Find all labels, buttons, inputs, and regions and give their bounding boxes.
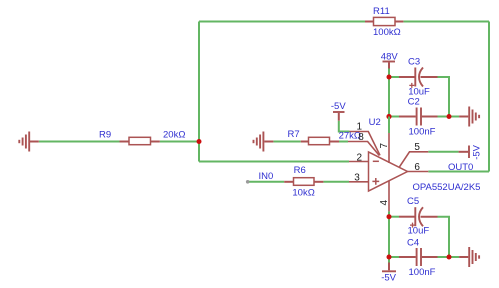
wire R7 left — [273, 141, 300, 143]
svg-text:-5V: -5V — [381, 273, 396, 284]
resistor R6 — [284, 178, 323, 186]
node junction R9 — [197, 139, 202, 144]
wire OUT0 row — [428, 171, 489, 173]
pin 2 lead — [349, 161, 369, 163]
svg-text:OUT0: OUT0 — [448, 162, 473, 173]
wire node to C3 — [389, 76, 399, 78]
svg-text:C3: C3 — [408, 57, 420, 68]
pin 5 lead — [400, 152, 429, 167]
resistor R11 — [365, 17, 403, 25]
capacitor C3 — [399, 68, 438, 88]
svg-text:5: 5 — [414, 142, 420, 153]
node junction 48V — [387, 75, 392, 80]
svg-text:100nF: 100nF — [409, 267, 436, 278]
svg-text:U2: U2 — [369, 117, 381, 128]
op-amp U2 — [348, 132, 428, 212]
svg-text:10uF: 10uF — [408, 226, 430, 237]
pin 6 lead — [408, 171, 429, 173]
wire C4 node to ground — [449, 256, 459, 258]
capacitor C4 — [399, 248, 438, 266]
wire feedback top — [199, 21, 365, 23]
wire 48V stem — [388, 69, 390, 78]
svg-text:C5: C5 — [407, 196, 419, 207]
wire -5V bottom stem green — [388, 257, 390, 263]
ground left — [19, 132, 39, 152]
node junction C4 left — [387, 255, 392, 260]
node junction C5 — [387, 214, 392, 219]
wire R9 right — [160, 141, 199, 143]
node junction C2 — [447, 114, 452, 119]
pin 1 lead — [350, 132, 381, 156]
wire C3 right — [438, 77, 450, 117]
wire IN0 to R6 — [248, 181, 284, 183]
power flag -5V upper — [333, 112, 345, 121]
svg-text:2: 2 — [357, 153, 363, 164]
svg-text:100kΩ: 100kΩ — [373, 27, 401, 38]
ground R7 — [254, 132, 274, 152]
plus sign — [372, 178, 379, 185]
power flag 48V — [383, 62, 396, 69]
wire R9 left — [39, 141, 120, 143]
svg-text:1: 1 — [357, 122, 363, 133]
svg-text:R11: R11 — [373, 6, 390, 17]
svg-text:R7: R7 — [288, 129, 300, 140]
svg-text:6: 6 — [414, 162, 420, 173]
capacitor C2 — [399, 108, 438, 126]
wire node to C5 — [389, 216, 399, 218]
wire node to C2 — [389, 116, 399, 118]
wire pin2 row — [199, 161, 349, 163]
capacitor C5 — [399, 207, 438, 227]
svg-text:7: 7 — [379, 143, 390, 149]
resistor R7 — [301, 137, 339, 144]
svg-text:8: 8 — [358, 132, 364, 143]
wire left vertical — [198, 22, 200, 162]
pin 3 lead — [349, 181, 369, 183]
svg-text:OPA552UA/2K5: OPA552UA/2K5 — [413, 182, 481, 193]
svg-text:R9: R9 — [99, 130, 111, 141]
svg-text:IN0: IN0 — [259, 171, 274, 182]
wire top right — [403, 21, 489, 23]
wire R7 right — [339, 141, 348, 143]
ground lower right — [459, 247, 479, 267]
svg-text:C4: C4 — [407, 238, 419, 249]
svg-text:-5V: -5V — [331, 101, 346, 112]
power flag -5V pin5 — [459, 146, 469, 159]
wire pin7 top — [388, 117, 390, 134]
svg-text:10kΩ: 10kΩ — [292, 187, 314, 198]
wire C5 right — [438, 217, 450, 257]
wire -5V to pin1 — [339, 121, 350, 132]
wire 48V node down — [388, 77, 390, 117]
svg-text:20kΩ: 20kΩ — [163, 129, 185, 140]
wire C4 right — [438, 256, 450, 258]
pin 7 lead — [388, 133, 390, 163]
pin 8 lead — [348, 142, 379, 156]
svg-text:C2: C2 — [408, 97, 420, 108]
ground upper right — [459, 107, 479, 127]
wire right vertical — [488, 22, 490, 172]
wire R6 to pin3 — [323, 181, 349, 183]
svg-text:R6: R6 — [294, 165, 306, 176]
svg-text:-5V: -5V — [472, 144, 483, 159]
minus sign — [373, 160, 379, 162]
node junction C4 right — [447, 255, 452, 260]
wire C2 node to ground — [449, 116, 459, 118]
svg-text:4: 4 — [379, 200, 390, 206]
wire C2 right — [438, 116, 450, 118]
wire C5 node down — [388, 217, 390, 257]
port IN0 — [246, 180, 250, 184]
svg-text:48V: 48V — [381, 52, 399, 63]
wire pin5 row — [428, 151, 458, 153]
wire pin4 bottom — [388, 211, 390, 216]
power flag -5V bottom — [382, 263, 396, 272]
svg-text:3: 3 — [354, 173, 360, 184]
wire node to C4 — [389, 256, 399, 258]
resistor R9 — [120, 137, 160, 144]
svg-text:100nF: 100nF — [409, 126, 436, 137]
pin 4 lead — [388, 181, 390, 211]
node junction C2 left — [386, 114, 391, 119]
